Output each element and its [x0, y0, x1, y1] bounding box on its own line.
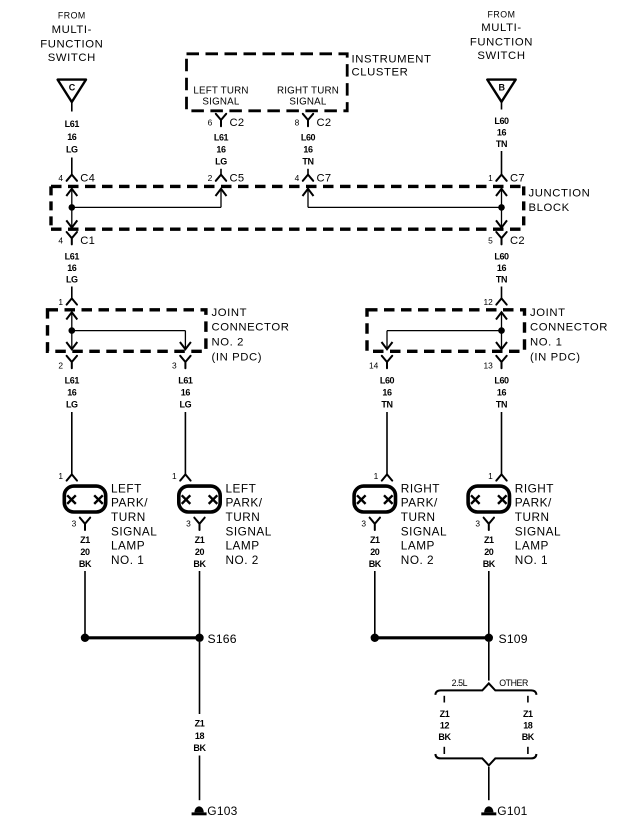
svg-text:20: 20 — [484, 547, 494, 557]
svg-text:12: 12 — [440, 721, 450, 731]
svg-text:4: 4 — [295, 173, 300, 183]
svg-text:SIGNAL: SIGNAL — [111, 524, 157, 538]
svg-text:JOINT: JOINT — [212, 307, 248, 319]
svg-text:LEFT: LEFT — [111, 481, 142, 495]
svg-text:TURN: TURN — [226, 510, 261, 524]
splice S109 — [371, 632, 528, 646]
svg-text:TURN: TURN — [401, 510, 436, 524]
svg-text:Z1: Z1 — [195, 535, 205, 545]
instrument cluster label — [352, 53, 432, 78]
svg-text:NO. 2: NO. 2 — [401, 553, 434, 567]
svg-text:8: 8 — [295, 117, 300, 127]
svg-text:16: 16 — [67, 388, 77, 398]
svg-text:SWITCH: SWITCH — [477, 50, 525, 62]
svg-text:BK: BK — [438, 732, 451, 742]
ground G101 — [484, 806, 493, 812]
svg-text:L60: L60 — [494, 116, 509, 126]
svg-text:3: 3 — [172, 361, 177, 371]
svg-text:(IN PDC): (IN PDC) — [212, 352, 263, 364]
svg-text:16: 16 — [497, 128, 507, 138]
wire: to left lamp 1 pin 1 — [71, 412, 73, 474]
arrow to pin 2 — [66, 342, 77, 349]
svg-text:SIGNAL: SIGNAL — [289, 97, 326, 108]
svg-text:LAMP: LAMP — [226, 539, 260, 553]
svg-text:TN: TN — [496, 275, 507, 285]
svg-text:4: 4 — [58, 173, 63, 183]
svg-text:BK: BK — [79, 559, 92, 569]
svg-text:C1: C1 — [80, 235, 95, 247]
svg-text:LG: LG — [180, 400, 192, 410]
lamp: RIGHT PARK/TURN SIGNAL LAMP NO. 1 — [468, 471, 561, 567]
svg-text:2: 2 — [58, 361, 63, 371]
joint connector no.2 internal bus — [66, 312, 185, 349]
svg-text:NO. 1: NO. 1 — [530, 337, 563, 349]
svg-text:16: 16 — [303, 145, 313, 155]
svg-text:1: 1 — [488, 471, 493, 481]
svg-text:TN: TN — [381, 400, 392, 410]
wire: lamp2 to S166 — [199, 571, 201, 634]
brace (engine split top) — [435, 683, 536, 694]
svg-text:NO. 1: NO. 1 — [515, 553, 548, 567]
svg-text:C: C — [69, 83, 76, 93]
junction dot (junction block left) — [69, 204, 76, 211]
joint connector no.1 label — [530, 307, 608, 363]
svg-text:C5: C5 — [230, 173, 245, 185]
svg-text:16: 16 — [382, 388, 392, 398]
svg-text:1: 1 — [58, 297, 63, 307]
svg-text:12: 12 — [483, 297, 493, 307]
svg-text:L61: L61 — [65, 252, 80, 262]
svg-text:16: 16 — [67, 263, 77, 273]
joint connector no.2 label — [212, 307, 290, 363]
svg-text:BK: BK — [483, 559, 496, 569]
connector pin 13 (joint connector no.1 out) — [483, 356, 506, 371]
svg-text:BK: BK — [193, 743, 206, 753]
svg-text:SIGNAL: SIGNAL — [515, 524, 561, 538]
svg-text:3: 3 — [475, 519, 480, 529]
svg-text:L61: L61 — [65, 119, 80, 129]
joint connector no.1 box (dashed) — [367, 310, 525, 352]
svg-text:C2: C2 — [317, 117, 332, 129]
svg-text:C7: C7 — [317, 173, 332, 185]
svg-text:JUNCTION: JUNCTION — [529, 187, 591, 199]
svg-text:RIGHT TURN: RIGHT TURN — [277, 86, 339, 97]
svg-text:LAMP: LAMP — [111, 539, 145, 553]
arrow to pin 14 — [382, 342, 393, 349]
joint connector no.2 box (dashed) — [48, 310, 206, 352]
svg-text:LG: LG — [66, 145, 78, 155]
svg-text:TN: TN — [302, 157, 313, 167]
wire: to left lamp 2 pin 1 — [184, 412, 186, 474]
arrow to C7 left — [303, 189, 314, 196]
lamp: LEFT PARK/TURN SIGNAL LAMP NO. 2 — [172, 471, 272, 567]
wire: to C7 left — [307, 169, 309, 175]
svg-text:CONNECTOR: CONNECTOR — [530, 322, 608, 334]
connector C2 pin 5 (junction block bottom right) — [488, 232, 525, 247]
lamp: LEFT PARK/TURN SIGNAL LAMP NO. 1 — [58, 471, 157, 567]
svg-text:3: 3 — [186, 519, 191, 529]
arrow to C5 — [216, 189, 227, 196]
wire: 2.5L branch stub bottom — [443, 747, 445, 754]
svg-text:NO. 2: NO. 2 — [226, 553, 259, 567]
node: FROM MULTI-FUNCTION SWITCH label (right) — [470, 10, 533, 63]
svg-text:20: 20 — [195, 547, 205, 557]
svg-text:PARK/: PARK/ — [226, 496, 263, 510]
svg-text:NO. 1: NO. 1 — [111, 553, 144, 567]
svg-text:PARK/: PARK/ — [111, 496, 148, 510]
svg-text:TN: TN — [496, 139, 507, 149]
svg-text:(IN PDC): (IN PDC) — [530, 352, 581, 364]
svg-text:PARK/: PARK/ — [401, 496, 438, 510]
svg-text:16: 16 — [181, 388, 191, 398]
lamp: RIGHT PARK/TURN SIGNAL LAMP NO. 2 — [354, 471, 447, 567]
arrow to pin 3 — [180, 342, 191, 349]
connector triangle B (from multi-function switch, right) — [487, 80, 515, 102]
svg-text:FUNCTION: FUNCTION — [470, 37, 533, 49]
svg-text:6: 6 — [208, 117, 213, 127]
wire: to C7 right — [501, 151, 503, 175]
svg-text:LEFT TURN: LEFT TURN — [193, 86, 248, 97]
svg-text:20: 20 — [80, 547, 90, 557]
svg-text:L61: L61 — [214, 133, 229, 143]
connector C5 pin 2 (junction block top) — [208, 173, 245, 185]
connector pin 1 (joint connector no.2 input) — [58, 297, 77, 307]
svg-text:S109: S109 — [499, 632, 528, 646]
svg-text:L61: L61 — [65, 376, 80, 386]
svg-text:SIGNAL: SIGNAL — [401, 524, 447, 538]
connector C1 pin 4 (junction block bottom left) — [58, 232, 95, 247]
svg-text:20: 20 — [370, 547, 380, 557]
wire: C2 to joint connector 1 — [501, 287, 503, 299]
junction block box (dashed) — [51, 186, 524, 229]
svg-text:PARK/: PARK/ — [515, 496, 552, 510]
wire: 2.5L branch stub top — [443, 696, 445, 703]
svg-text:OTHER: OTHER — [499, 678, 528, 688]
svg-text:1: 1 — [172, 471, 177, 481]
svg-text:Z1: Z1 — [370, 535, 380, 545]
joint connector no.1 internal bus — [387, 312, 507, 349]
svg-text:4: 4 — [58, 236, 63, 246]
wire: OTHER branch stub top — [527, 696, 529, 703]
wire: to G103 — [199, 756, 201, 801]
svg-text:SWITCH: SWITCH — [48, 52, 96, 64]
svg-text:18: 18 — [195, 731, 205, 741]
wire: lamp3 to S109 — [374, 571, 376, 634]
arrow to C1 — [66, 220, 77, 227]
svg-text:CONNECTOR: CONNECTOR — [212, 322, 290, 334]
wire: OTHER branch stub bottom — [527, 747, 529, 754]
wire: to right lamp 1 pin 1 — [501, 412, 503, 474]
svg-text:SIGNAL: SIGNAL — [202, 97, 239, 108]
arrow to pin 13 — [496, 342, 507, 349]
svg-text:FUNCTION: FUNCTION — [40, 39, 103, 51]
svg-text:Z1: Z1 — [80, 535, 90, 545]
wire: lamp1 to S166 — [84, 571, 86, 634]
svg-text:Z1: Z1 — [484, 535, 494, 545]
connector pin 14 (joint connector no.1 out) — [369, 356, 392, 371]
svg-text:18: 18 — [523, 721, 533, 731]
svg-text:G103: G103 — [207, 804, 237, 818]
svg-text:BK: BK — [522, 732, 535, 742]
wire: C1 to joint connector 2 — [71, 287, 73, 299]
connector pin 12 (joint connector no.1 input) — [483, 297, 506, 307]
svg-text:C2: C2 — [230, 117, 245, 129]
svg-text:FROM: FROM — [58, 11, 86, 21]
svg-text:2: 2 — [208, 173, 213, 183]
svg-text:RIGHT: RIGHT — [401, 481, 440, 495]
svg-text:L60: L60 — [301, 133, 316, 143]
svg-text:BK: BK — [369, 559, 382, 569]
connector C2 pin 8 (instrument cluster right) — [295, 114, 332, 129]
wire: to C5 — [220, 169, 222, 175]
node: FROM MULTI-FUNCTION SWITCH label (left) — [40, 11, 103, 65]
svg-text:FROM: FROM — [488, 10, 516, 20]
svg-text:C2: C2 — [510, 235, 525, 247]
wire: to C4 — [71, 158, 73, 175]
svg-text:L61: L61 — [178, 376, 193, 386]
svg-text:MULTI-: MULTI- — [481, 22, 521, 34]
svg-text:2.5L: 2.5L — [452, 678, 468, 688]
connector C7 pin 1 (junction block top right) — [488, 173, 525, 185]
svg-text:16: 16 — [497, 263, 507, 273]
svg-text:TURN: TURN — [111, 510, 146, 524]
svg-text:13: 13 — [483, 361, 493, 371]
wire: lamp4 to S109 — [488, 571, 490, 634]
arrow to C2 — [496, 220, 507, 227]
brace (engine split bottom) — [435, 754, 536, 765]
connector C2 pin 6 (instrument cluster left) — [208, 114, 245, 129]
svg-text:1: 1 — [374, 471, 379, 481]
svg-text:L60: L60 — [380, 376, 395, 386]
junction dot (junction block right) — [498, 204, 505, 211]
svg-text:L60: L60 — [494, 376, 509, 386]
junction dot (joint connector no.2) — [69, 327, 76, 334]
svg-text:NO. 2: NO. 2 — [212, 337, 245, 349]
svg-text:3: 3 — [361, 519, 366, 529]
svg-text:16: 16 — [216, 145, 226, 155]
node: RIGHT TURN SIGNAL label — [277, 86, 339, 108]
wire: to right lamp 2 pin 1 — [386, 412, 388, 474]
svg-text:BLOCK: BLOCK — [529, 202, 570, 214]
svg-text:Z1: Z1 — [195, 718, 205, 728]
svg-text:CLUSTER: CLUSTER — [352, 67, 409, 79]
svg-text:INSTRUMENT: INSTRUMENT — [352, 53, 432, 65]
wire: triangle C stub — [71, 102, 73, 112]
svg-text:5: 5 — [488, 236, 493, 246]
splice S166 — [81, 632, 237, 646]
svg-text:LAMP: LAMP — [401, 539, 435, 553]
ground G103 — [194, 806, 203, 812]
svg-text:3: 3 — [72, 519, 77, 529]
svg-text:B: B — [498, 82, 505, 92]
svg-text:JOINT: JOINT — [530, 307, 566, 319]
wire: S166 down — [199, 642, 201, 714]
svg-text:Z1: Z1 — [523, 709, 533, 719]
instrument cluster box (dashed) — [187, 54, 348, 111]
node: LEFT TURN SIGNAL label — [193, 86, 248, 108]
svg-text:16: 16 — [497, 388, 507, 398]
connector triangle C (from multi-function switch, left) — [58, 80, 86, 102]
svg-text:16: 16 — [67, 132, 77, 142]
svg-text:1: 1 — [58, 471, 63, 481]
svg-text:TURN: TURN — [515, 510, 550, 524]
connector C7 pin 4 (junction block top) — [295, 173, 332, 185]
svg-text:S166: S166 — [208, 632, 237, 646]
svg-text:Z1: Z1 — [440, 709, 450, 719]
svg-text:L60: L60 — [494, 252, 509, 262]
svg-text:MULTI-: MULTI- — [52, 24, 92, 36]
svg-text:BK: BK — [193, 559, 206, 569]
svg-text:G101: G101 — [497, 804, 527, 818]
svg-text:LAMP: LAMP — [515, 539, 549, 553]
connector pin 2 (joint connector no.2 out) — [58, 356, 77, 371]
wire: triangle B stub — [501, 102, 503, 110]
wire: to G101 — [488, 767, 490, 800]
junction dot (joint connector no.1) — [498, 327, 505, 334]
wire: S109 down — [488, 642, 490, 681]
svg-text:LG: LG — [66, 400, 78, 410]
svg-text:1: 1 — [488, 173, 493, 183]
svg-text:C4: C4 — [80, 173, 95, 185]
svg-text:14: 14 — [369, 361, 379, 371]
svg-text:LG: LG — [66, 275, 78, 285]
svg-text:RIGHT: RIGHT — [515, 481, 554, 495]
svg-text:LG: LG — [215, 157, 227, 167]
svg-text:TN: TN — [496, 400, 507, 410]
connector C4 pin 4 (junction block top) — [58, 173, 95, 185]
svg-text:SIGNAL: SIGNAL — [226, 524, 272, 538]
connector pin 3 (joint connector no.2 out) — [172, 356, 191, 371]
junction block internal bus (left): C4 to C5 and C1 — [66, 189, 221, 228]
junction block internal bus (right): C7 to C7 and C2 — [308, 189, 507, 228]
svg-text:LEFT: LEFT — [226, 481, 257, 495]
junction block label — [529, 187, 591, 214]
svg-text:C7: C7 — [510, 173, 525, 185]
